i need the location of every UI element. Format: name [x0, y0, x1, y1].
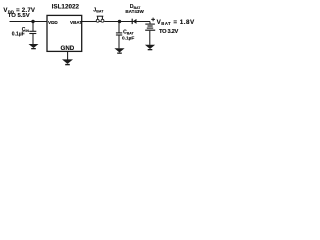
svg-text:JBAT: JBAT: [93, 7, 104, 13]
svg-text:0.1µF: 0.1µF: [122, 36, 134, 42]
svg-text:0.1µF: 0.1µF: [12, 32, 25, 38]
svg-text:ISL12022: ISL12022: [52, 4, 80, 11]
svg-text:GND: GND: [61, 45, 75, 52]
svg-text:BAT43W: BAT43W: [125, 9, 144, 14]
svg-text:VDD: VDD: [48, 20, 58, 25]
svg-text:VBAT = 1.8V: VBAT = 1.8V: [157, 19, 195, 26]
svg-text:CBAT: CBAT: [123, 30, 134, 36]
svg-text:TO 5.5V: TO 5.5V: [8, 13, 30, 19]
svg-text:TO 3.2V: TO 3.2V: [159, 29, 178, 35]
svg-text:VBAT: VBAT: [70, 20, 82, 25]
